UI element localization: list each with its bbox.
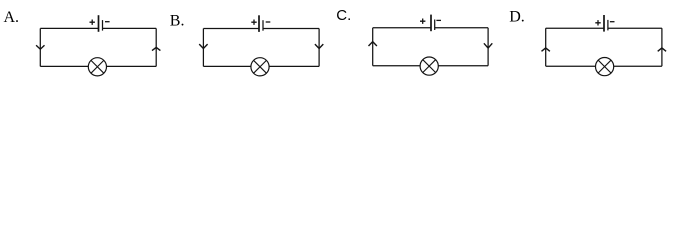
svg-text:C.: C. — [336, 7, 351, 24]
svg-text:B.: B. — [170, 13, 185, 30]
svg-text:A.: A. — [4, 9, 20, 26]
svg-text:D.: D. — [509, 9, 525, 26]
